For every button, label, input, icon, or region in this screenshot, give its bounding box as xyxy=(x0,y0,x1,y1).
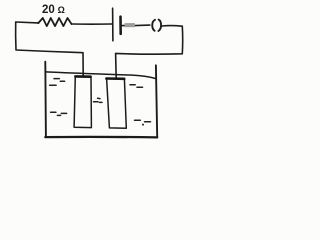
svg-text:Ω: Ω xyxy=(58,5,65,15)
svg-text:20: 20 xyxy=(42,4,55,16)
